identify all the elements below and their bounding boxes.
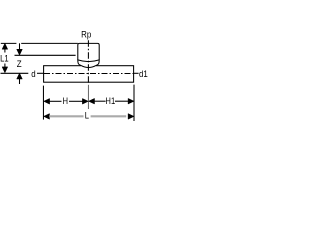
- dimension H1 line right: [115, 100, 128, 102]
- svg-text:H: H: [62, 95, 68, 106]
- dimension L line right (gray): [91, 115, 127, 117]
- dimension H right arrow: [82, 99, 88, 105]
- svg-text:Z: Z: [17, 59, 22, 70]
- svg-text:d1: d1: [139, 69, 148, 80]
- extension line pipe left end: [42, 86, 44, 120]
- dimension H line left: [49, 100, 61, 102]
- pipe top edge left segment kept by rect; saddle gap cover: [81, 65, 96, 67]
- pipe body (run): [44, 66, 134, 83]
- insertion line left (to Z): [15, 54, 76, 56]
- branch top extension line: [1, 42, 78, 44]
- svg-text:L1: L1: [0, 53, 9, 64]
- dimension H1 right arrow: [128, 98, 134, 104]
- saddle upper arc: [78, 60, 99, 62]
- dimension Z bottom arrow: [17, 73, 23, 79]
- socket left descent to pipe: [78, 59, 81, 65]
- dimension L1 bottom arrow: [4, 64, 6, 68]
- dimension L line left (gray): [49, 115, 83, 117]
- saddle lower arc: [81, 65, 96, 67]
- dimension H line right: [69, 100, 83, 102]
- svg-text:H1: H1: [105, 95, 115, 106]
- dimension H left arrow: [44, 99, 50, 105]
- run centerline dash-dot inside pipe: [44, 73, 134, 75]
- extension line pipe right end: [133, 85, 135, 121]
- run centerline left leader into pipe: [37, 72, 44, 74]
- dimension L right arrow: [128, 114, 134, 120]
- branch centerline vertical: [87, 40, 89, 84]
- dimension L1 top arrow: [2, 43, 8, 49]
- dimension H1 line left: [94, 100, 106, 102]
- dimension L left arrow: [44, 114, 50, 120]
- run centerline left extension: [1, 72, 29, 74]
- svg-text:Rp: Rp: [81, 29, 91, 40]
- run centerline right leader: [134, 72, 139, 74]
- dimension Z top arrow: [19, 43, 21, 49]
- svg-text:L: L: [85, 110, 90, 121]
- svg-text:d: d: [31, 68, 36, 79]
- dimension H1 left arrow: [89, 98, 95, 104]
- socket U1 (threaded branch): [78, 43, 99, 60]
- socket right descent to pipe: [96, 59, 99, 65]
